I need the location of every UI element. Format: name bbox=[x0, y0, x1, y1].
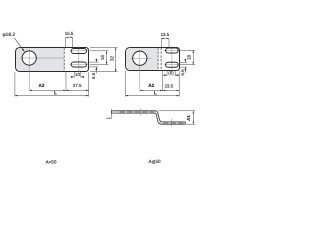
slot 2 outline left view bbox=[71, 62, 86, 67]
dim L line bbox=[15, 95, 89, 97]
gray flat region right view bbox=[126, 48, 158, 70]
slot vertical centerline right view bbox=[171, 46, 173, 71]
svg-text:6.6: 6.6 bbox=[91, 72, 96, 79]
svg-text:10: 10 bbox=[75, 72, 80, 77]
slot1 horizontal centerline bbox=[69, 50, 88, 52]
part right edge ext right view bbox=[178, 71, 180, 97]
dim 6.6 stubs left view bbox=[95, 59, 97, 62]
slot2 h centerline right view bbox=[164, 64, 179, 66]
svg-text:18: 18 bbox=[186, 55, 191, 60]
hole fill right view bbox=[133, 51, 147, 65]
slot 2 fill right view bbox=[166, 62, 179, 67]
dim 13.5 ext lines bbox=[160, 39, 162, 47]
slot centerline tick side view bbox=[171, 119, 173, 127]
dim A2 line right view bbox=[140, 89, 163, 91]
A1 bottom ext line bbox=[186, 123, 195, 125]
part outline right view bbox=[126, 48, 180, 71]
leader for φ18.2 bbox=[14, 38, 24, 52]
svg-text:A2: A2 bbox=[39, 83, 45, 88]
hole outline left view bbox=[22, 51, 36, 65]
section dashes top bar bbox=[120, 111, 155, 113]
hole outline right view bbox=[133, 51, 147, 65]
vertical centerline of hole right view + ext to dim bbox=[139, 50, 141, 91]
dim 27.5 line bbox=[66, 89, 89, 91]
dim 18 line right view bbox=[192, 50, 194, 64]
part left edge ext right view bbox=[125, 71, 127, 97]
slot1 h centerline right view bbox=[164, 49, 179, 51]
svg-text:6.6: 6.6 bbox=[180, 69, 185, 76]
dim 6.6 stubs right view bbox=[184, 59, 186, 62]
slot 1 outline left view bbox=[71, 49, 86, 54]
slot 1 outline right view bbox=[166, 48, 179, 53]
left end arrow mark side view bbox=[106, 117, 109, 119]
dim (6) ext lines bbox=[166, 71, 168, 76]
slot 1 fill right view bbox=[166, 48, 179, 53]
svg-text:(6): (6) bbox=[168, 70, 174, 75]
part top ext line right bbox=[90, 47, 118, 49]
dim 6.6 ext lines right view bbox=[179, 61, 187, 63]
svg-text:A1: A1 bbox=[186, 115, 191, 121]
part right edge ext line bbox=[88, 72, 90, 96]
hole centerline tick side view bbox=[140, 109, 142, 116]
bend dashed line 2 right view bbox=[160, 48, 162, 71]
part outline left view bbox=[16, 48, 89, 72]
dim 10 stubs with arrows bbox=[71, 76, 75, 78]
svg-text:32: 32 bbox=[109, 56, 114, 61]
dim 13.5 line bbox=[161, 37, 169, 39]
dim A2 / 27.5 middle ext line bbox=[65, 72, 67, 91]
bend dashed line 1 right view bbox=[157, 48, 159, 71]
svg-text:13.5: 13.5 bbox=[161, 32, 170, 37]
svg-text:A>50: A>50 bbox=[46, 160, 57, 165]
svg-text:15.5: 15.5 bbox=[65, 31, 74, 36]
slot 2 fill left view bbox=[71, 62, 86, 67]
left end ext line side view bbox=[111, 109, 113, 119]
A1 top ext line bbox=[159, 110, 196, 112]
svg-text:L: L bbox=[54, 91, 57, 96]
slot2 center ext line right bbox=[90, 64, 109, 66]
slot1 center ext line right bbox=[90, 50, 109, 52]
svg-text:L: L bbox=[154, 90, 157, 95]
slot2 center ext right bbox=[180, 64, 195, 66]
slot2 horizontal centerline bbox=[69, 64, 88, 66]
bend dashed line left view bbox=[63, 48, 65, 72]
dim (6) stubs bbox=[163, 74, 167, 76]
svg-text:23.5: 23.5 bbox=[164, 83, 173, 88]
svg-text:φ18.2: φ18.2 bbox=[3, 32, 16, 38]
slot1 center ext right bbox=[180, 49, 195, 51]
vertical centerline of hole + extension to dim line bbox=[28, 50, 30, 91]
dim 18 line bbox=[106, 51, 108, 65]
svg-text:A≦50: A≦50 bbox=[149, 159, 161, 164]
part left edge ext line bbox=[14, 72, 16, 96]
dim 6.6 ext lines left view bbox=[88, 61, 99, 63]
dim 15.5 line bbox=[66, 36, 73, 38]
gray flat region left view bbox=[16, 48, 64, 71]
dim 10 ext lines bbox=[73, 72, 75, 78]
section dashes bottom bar bbox=[163, 122, 185, 124]
slot 1 fill left view bbox=[71, 49, 86, 54]
dim 15.5 ext lines bbox=[65, 38, 67, 48]
slot 2 outline right view bbox=[166, 62, 179, 67]
dim A2/23.5 middle ext line right view bbox=[162, 71, 164, 91]
dim A1 line bbox=[192, 111, 194, 124]
svg-text:A2: A2 bbox=[148, 83, 154, 88]
dim A2 line bbox=[29, 89, 66, 91]
svg-text:27.5: 27.5 bbox=[73, 83, 82, 88]
Z profile outline bbox=[112, 111, 186, 124]
horizontal centerline of hole bbox=[21, 57, 65, 59]
slot vertical centerline bbox=[78, 46, 80, 73]
hole fill left view bbox=[22, 51, 36, 65]
part bottom ext line right bbox=[90, 71, 118, 73]
svg-text:18: 18 bbox=[100, 55, 105, 60]
dim 32 line bbox=[115, 48, 117, 72]
horizontal centerline of hole right view bbox=[131, 57, 152, 59]
dim L line right view bbox=[126, 95, 180, 97]
dim 23.5 line right view bbox=[163, 89, 180, 91]
